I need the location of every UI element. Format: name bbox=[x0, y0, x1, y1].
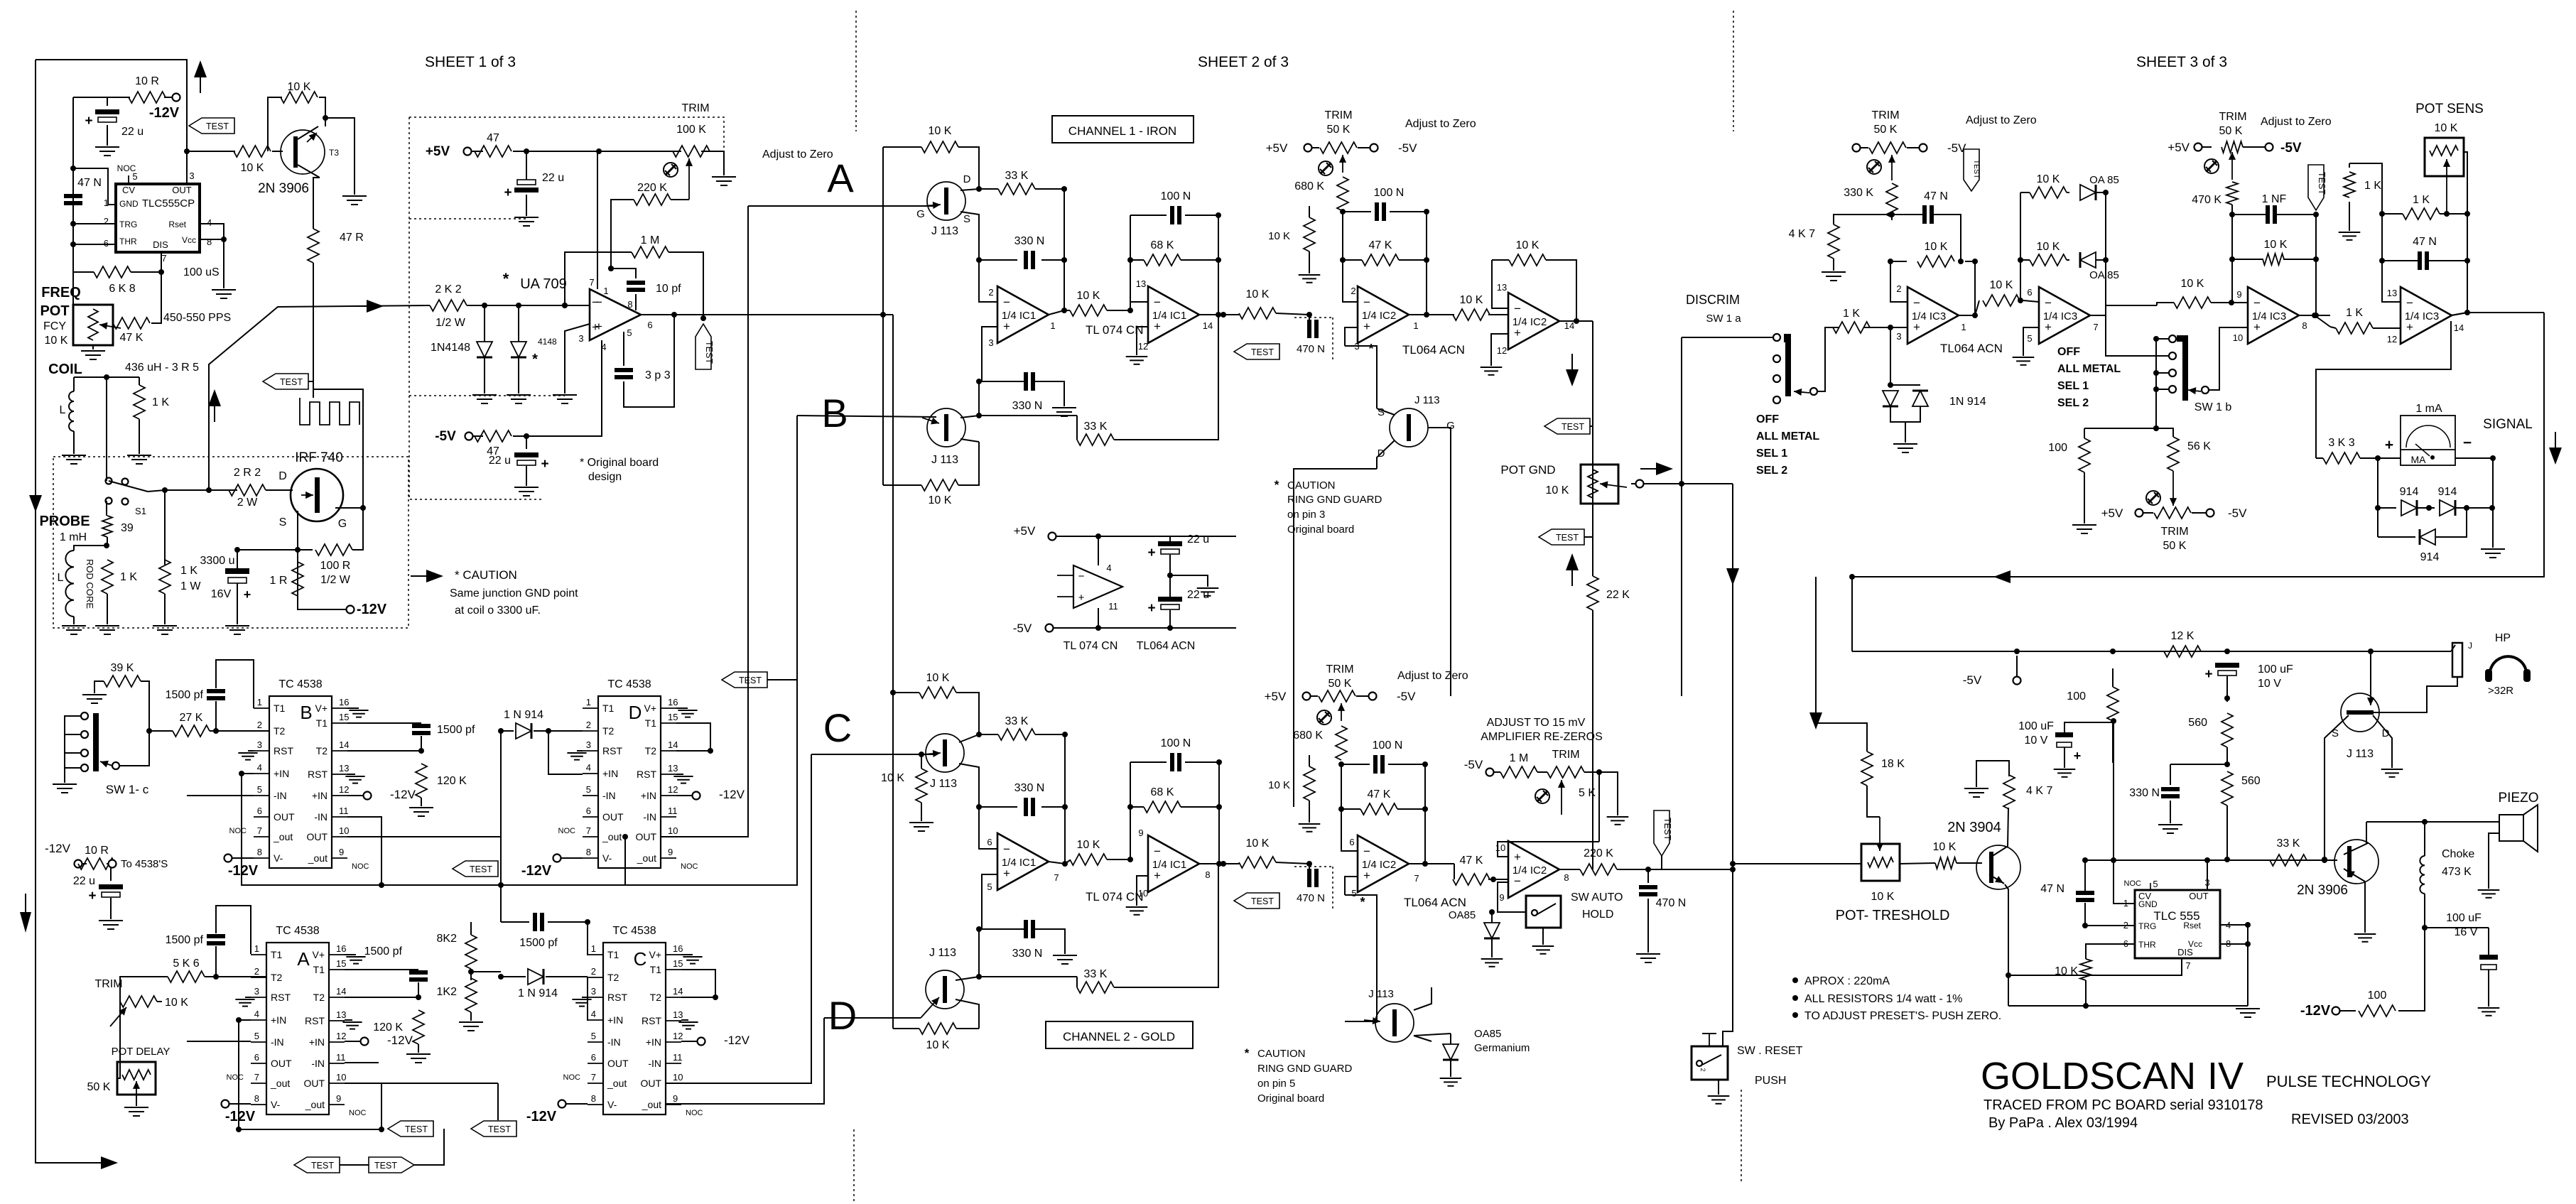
svg-text:Vcc: Vcc bbox=[2188, 939, 2202, 949]
wire bbox=[501, 921, 529, 923]
svg-text:-5V: -5V bbox=[1397, 690, 1416, 703]
wire bbox=[313, 263, 314, 398]
terminal -12V bbox=[224, 855, 232, 862]
svg-text:-IN: -IN bbox=[314, 811, 328, 823]
wire bbox=[110, 868, 112, 881]
wire bbox=[1542, 928, 1544, 945]
wire bbox=[1309, 315, 1310, 324]
svg-text:1500 pf: 1500 pf bbox=[166, 934, 204, 946]
wire bbox=[112, 322, 114, 324]
switch SW 1- c bbox=[81, 712, 88, 720]
wire bbox=[200, 239, 224, 240]
svg-text:SW AUTO: SW AUTO bbox=[1571, 891, 1623, 904]
wire bbox=[882, 147, 884, 315]
capacitor 22 u bbox=[95, 109, 119, 114]
wire bbox=[534, 730, 583, 732]
wire bbox=[2220, 943, 2248, 945]
wire bbox=[557, 857, 583, 859]
svg-text:SEL 2: SEL 2 bbox=[1756, 465, 1787, 477]
resistor 10 K bbox=[2174, 297, 2211, 308]
flow arrow bbox=[1809, 712, 1822, 730]
wire bbox=[1169, 610, 1171, 628]
svg-text:*: * bbox=[1360, 895, 1365, 909]
capacitor 100 N bbox=[1170, 206, 1174, 224]
wire bbox=[2424, 822, 2425, 856]
svg-text:−: − bbox=[2045, 296, 2052, 310]
svg-text:2: 2 bbox=[1896, 283, 1901, 294]
capacitor 330 N bbox=[1024, 798, 1028, 816]
svg-text:+IN: +IN bbox=[607, 1014, 623, 1026]
svg-text:T2: T2 bbox=[274, 725, 286, 737]
svg-text:7: 7 bbox=[2185, 960, 2190, 971]
wire bbox=[2106, 305, 2157, 315]
svg-text:1 K: 1 K bbox=[120, 571, 137, 583]
svg-text:J 113: J 113 bbox=[1414, 394, 1440, 406]
wire bbox=[470, 1012, 472, 1021]
wire bbox=[883, 314, 893, 315]
svg-text:22 u: 22 u bbox=[121, 126, 144, 138]
wire bbox=[2425, 821, 2499, 823]
svg-text:TRIM: TRIM bbox=[1871, 109, 1899, 121]
svg-text:CAUTION: CAUTION bbox=[1287, 479, 1336, 492]
svg-text:22 u: 22 u bbox=[542, 172, 564, 184]
wire bbox=[587, 977, 588, 1021]
svg-text:8: 8 bbox=[2302, 320, 2307, 331]
wire bbox=[1424, 809, 1426, 864]
svg-text:1/4 IC3: 1/4 IC3 bbox=[2405, 310, 2439, 322]
wire bbox=[82, 863, 87, 864]
svg-text:2N 3904: 2N 3904 bbox=[1947, 820, 2001, 835]
capacitor bbox=[2161, 787, 2180, 791]
ground bbox=[909, 822, 933, 823]
svg-text:1: 1 bbox=[603, 286, 608, 296]
svg-text:33 K: 33 K bbox=[1084, 968, 1108, 980]
ground bbox=[1532, 945, 1554, 947]
svg-text:A: A bbox=[827, 156, 854, 200]
svg-text:-12V: -12V bbox=[521, 863, 552, 879]
trimmer screw symbol bbox=[1535, 789, 1549, 803]
svg-text:22 u: 22 u bbox=[73, 875, 95, 887]
wire bbox=[1974, 261, 1976, 315]
svg-text:+5V: +5V bbox=[2168, 141, 2190, 154]
svg-text:10: 10 bbox=[336, 1072, 346, 1083]
wire bbox=[1681, 337, 1682, 484]
svg-text:NOC: NOC bbox=[2124, 879, 2142, 888]
wire bbox=[200, 224, 224, 239]
svg-text:1/4 IC1: 1/4 IC1 bbox=[1002, 310, 1036, 322]
resistor 220 K bbox=[634, 194, 671, 205]
svg-text:Vcc: Vcc bbox=[182, 235, 196, 245]
wire bbox=[2231, 205, 2233, 215]
terminal -5V bbox=[1046, 624, 1054, 632]
svg-text:SW 1 b: SW 1 b bbox=[2195, 401, 2232, 413]
notes bbox=[1792, 977, 1798, 983]
wire bbox=[1631, 483, 1635, 484]
svg-text:14: 14 bbox=[339, 739, 349, 750]
wire bbox=[1450, 1060, 1451, 1077]
wire bbox=[1309, 864, 1310, 873]
wire bbox=[1867, 786, 1880, 817]
svg-text:1 K: 1 K bbox=[2413, 194, 2430, 206]
wire bbox=[106, 501, 107, 516]
wire bbox=[237, 549, 298, 551]
svg-text:−: − bbox=[592, 295, 599, 309]
resistor 47 bbox=[475, 146, 512, 157]
wire bbox=[1035, 734, 1065, 735]
svg-text:on pin 5: on pin 5 bbox=[1257, 1078, 1295, 1090]
resistor 33 K bbox=[1077, 434, 1114, 445]
svg-text:TLC555CP: TLC555CP bbox=[142, 197, 195, 210]
svg-text:at coil o 3300 uF.: at coil o 3300 uF. bbox=[455, 604, 541, 617]
diode bbox=[528, 969, 543, 985]
resistor 47 K bbox=[1453, 874, 1490, 885]
wire bbox=[1114, 315, 1218, 440]
svg-text:OFF: OFF bbox=[2057, 346, 2080, 358]
wire bbox=[161, 252, 162, 272]
svg-text:T1: T1 bbox=[313, 964, 325, 975]
ground bbox=[1481, 958, 1503, 960]
wire bbox=[2455, 457, 2493, 459]
wire bbox=[347, 795, 367, 796]
svg-text:OUT: OUT bbox=[303, 1078, 325, 1089]
svg-text:TC 4538: TC 4538 bbox=[278, 678, 322, 690]
wire bbox=[2231, 302, 2248, 303]
svg-text:10: 10 bbox=[339, 825, 349, 836]
wire bbox=[2378, 507, 2396, 509]
wire bbox=[2143, 512, 2153, 514]
svg-text:TEST: TEST bbox=[1251, 347, 1274, 357]
svg-text:14: 14 bbox=[668, 739, 678, 750]
wire bbox=[1907, 147, 1919, 148]
wire bbox=[1409, 863, 1454, 864]
svg-text:5: 5 bbox=[987, 882, 992, 892]
svg-text:-12V: -12V bbox=[719, 788, 745, 801]
ground bbox=[2072, 524, 2096, 526]
IC TC 4538 B bbox=[269, 696, 332, 868]
terminal -5V bbox=[1370, 144, 1378, 152]
svg-text:TEST: TEST bbox=[311, 1161, 334, 1171]
wire bbox=[1064, 310, 1070, 311]
wire bbox=[526, 151, 527, 180]
terminal +5V bbox=[2195, 143, 2202, 151]
svg-text:TRIM: TRIM bbox=[1326, 663, 1353, 676]
svg-text:-IN: -IN bbox=[602, 790, 616, 801]
svg-text:2: 2 bbox=[257, 720, 262, 730]
svg-text:CV: CV bbox=[122, 185, 135, 195]
svg-text:TRIM: TRIM bbox=[1324, 109, 1352, 121]
svg-text:7: 7 bbox=[2093, 322, 2098, 332]
svg-text:7: 7 bbox=[254, 1072, 259, 1083]
svg-text:470 N: 470 N bbox=[1656, 897, 1687, 909]
wire bbox=[2398, 1010, 2425, 1012]
diode bbox=[477, 342, 492, 357]
wire bbox=[2330, 327, 2336, 328]
svg-text:J 113: J 113 bbox=[929, 947, 956, 959]
svg-text:SHEET 3 of 3: SHEET 3 of 3 bbox=[2136, 54, 2227, 70]
svg-text:8: 8 bbox=[257, 847, 262, 857]
wire bbox=[921, 803, 922, 821]
svg-text:APROX : 220mA: APROX : 220mA bbox=[1804, 975, 1890, 987]
ground bbox=[1607, 816, 1629, 818]
svg-text:330 N: 330 N bbox=[1012, 948, 1043, 960]
svg-text:+: + bbox=[244, 587, 251, 602]
svg-text:9: 9 bbox=[339, 847, 344, 857]
svg-text:10 K: 10 K bbox=[1990, 279, 2013, 291]
svg-text:PROBE: PROBE bbox=[39, 514, 90, 529]
resistor bbox=[113, 318, 150, 329]
trimmer screw symbol bbox=[1867, 160, 1881, 174]
resistor bbox=[2221, 141, 2243, 153]
svg-text:3: 3 bbox=[254, 986, 259, 997]
svg-text:+IN: +IN bbox=[641, 790, 656, 801]
svg-text:−: − bbox=[1514, 302, 1521, 315]
flow arrow bbox=[101, 1156, 118, 1169]
wire bbox=[501, 976, 526, 977]
wire bbox=[1309, 206, 1310, 217]
ground bbox=[212, 289, 236, 291]
wire bbox=[2283, 259, 2316, 260]
svg-text:-12V: -12V bbox=[45, 842, 71, 855]
wire bbox=[2467, 214, 2468, 313]
svg-text:5 K 6: 5 K 6 bbox=[173, 958, 199, 970]
svg-text:T2: T2 bbox=[607, 972, 619, 983]
terminal +5V bbox=[1303, 693, 1311, 700]
svg-text:−: − bbox=[1078, 570, 1085, 582]
svg-text:15: 15 bbox=[668, 712, 678, 722]
wire bbox=[2382, 261, 2401, 302]
inductor bbox=[69, 391, 74, 431]
wire bbox=[1934, 215, 1961, 261]
terminal -5V bbox=[1369, 693, 1377, 700]
svg-text:ALL RESISTORS 1/4 watt - 1%: ALL RESISTORS 1/4 watt - 1% bbox=[1804, 993, 1962, 1005]
transistor JFET bbox=[2341, 693, 2379, 732]
svg-text:12: 12 bbox=[1138, 341, 1148, 352]
svg-text:7: 7 bbox=[586, 825, 591, 836]
svg-text:1 N 914: 1 N 914 bbox=[504, 709, 543, 721]
resistor 33 K bbox=[1077, 982, 1114, 993]
svg-text:1500 pf: 1500 pf bbox=[437, 724, 475, 736]
wire bbox=[2231, 215, 2233, 259]
PROBE enclosure bbox=[53, 457, 408, 628]
svg-text:THR: THR bbox=[2138, 940, 2156, 950]
svg-text:TEST: TEST bbox=[1562, 422, 1584, 432]
svg-text:7: 7 bbox=[1054, 872, 1059, 883]
wire bbox=[1294, 469, 1377, 807]
wire bbox=[1428, 428, 1451, 696]
wire bbox=[1130, 762, 1131, 859]
wire bbox=[1130, 259, 1144, 261]
svg-text:POT: POT bbox=[40, 303, 69, 319]
wire bbox=[298, 549, 313, 551]
op-amp 1/4 IC1 bbox=[997, 286, 1049, 343]
wire bbox=[1414, 1034, 1451, 1036]
terminal -5V bbox=[2266, 143, 2273, 151]
transistor JFET bbox=[926, 970, 964, 1009]
svg-text:TEST: TEST bbox=[1251, 896, 1274, 906]
wire bbox=[2247, 925, 2248, 1006]
wire bbox=[2084, 472, 2085, 524]
wire bbox=[345, 1041, 364, 1042]
wire bbox=[347, 817, 381, 885]
svg-text:14: 14 bbox=[336, 986, 346, 997]
trimmer screw symbol bbox=[664, 163, 678, 177]
transistor 2N 3904 bbox=[1976, 845, 2020, 889]
wire bbox=[186, 120, 188, 132]
svg-text:_out: _out bbox=[270, 1078, 290, 1089]
svg-text:2: 2 bbox=[254, 966, 259, 977]
svg-text:10 K: 10 K bbox=[929, 125, 952, 137]
resistor bbox=[2226, 182, 2238, 205]
wire bbox=[2192, 512, 2206, 514]
wire bbox=[982, 874, 997, 929]
op-amp 1/4 IC1 bbox=[997, 833, 1049, 890]
wire bbox=[767, 679, 797, 680]
terminal -12V bbox=[75, 860, 82, 868]
wire bbox=[110, 898, 112, 919]
resistor 100 bbox=[2359, 1005, 2396, 1016]
svg-text:-12V: -12V bbox=[2300, 1003, 2331, 1019]
capacitor 22 u bbox=[1158, 541, 1182, 546]
resistor bbox=[1304, 766, 1315, 801]
svg-text:J: J bbox=[2468, 641, 2472, 651]
wire bbox=[979, 806, 1017, 808]
wire bbox=[2382, 260, 2418, 261]
svg-text:8: 8 bbox=[591, 1093, 596, 1104]
svg-text:4: 4 bbox=[207, 217, 212, 228]
svg-text:4 K 7: 4 K 7 bbox=[1789, 228, 1815, 240]
diode 1 N 914 bbox=[516, 723, 531, 739]
wire bbox=[107, 594, 108, 624]
wire bbox=[319, 97, 325, 118]
wire bbox=[526, 466, 527, 486]
ground bbox=[153, 625, 177, 627]
resistor 10 K bbox=[1453, 309, 1490, 320]
svg-text:GND: GND bbox=[119, 199, 139, 209]
svg-text:10 K: 10 K bbox=[1246, 837, 1270, 850]
capacitor 100 N bbox=[1170, 753, 1174, 771]
svg-text:RST: RST bbox=[607, 992, 627, 1003]
capacitor 3300 u bbox=[225, 568, 249, 574]
capacitor bbox=[1375, 202, 1379, 221]
svg-text:NOC: NOC bbox=[681, 862, 698, 871]
wire bbox=[1107, 310, 1130, 311]
svg-text:ROD CORE: ROD CORE bbox=[85, 559, 95, 609]
wire bbox=[352, 508, 363, 550]
svg-text:1/4 IC1: 1/4 IC1 bbox=[1152, 310, 1186, 322]
svg-text:+5V: +5V bbox=[1266, 141, 1288, 155]
wire bbox=[2170, 764, 2227, 765]
svg-text:7: 7 bbox=[1414, 873, 1419, 884]
svg-text:SHEET 2 of 3: SHEET 2 of 3 bbox=[1198, 54, 1289, 70]
wire bbox=[149, 730, 173, 732]
wire bbox=[2226, 676, 2228, 702]
wire bbox=[2023, 340, 2024, 356]
flow arrow bbox=[1566, 369, 1579, 386]
svg-text:680 K: 680 K bbox=[1293, 730, 1323, 742]
resistor bbox=[120, 996, 157, 1007]
svg-text:10 K: 10 K bbox=[1546, 484, 1569, 497]
svg-text:13: 13 bbox=[1497, 282, 1507, 293]
svg-text:SW 1 a: SW 1 a bbox=[1706, 313, 1741, 325]
terminal -12V bbox=[693, 792, 700, 800]
wire bbox=[2425, 927, 2489, 928]
wire bbox=[1309, 251, 1310, 273]
svg-text:8: 8 bbox=[1564, 872, 1569, 883]
terminal -12V bbox=[361, 1038, 369, 1046]
wire bbox=[266, 489, 293, 491]
IC TC 4538 C bbox=[603, 943, 666, 1114]
svg-text:4148: 4148 bbox=[538, 337, 557, 347]
svg-text:−: − bbox=[2463, 435, 2472, 451]
wire bbox=[2207, 860, 2208, 890]
terminal -12V bbox=[364, 792, 372, 800]
wire bbox=[978, 381, 980, 416]
svg-text:2: 2 bbox=[586, 720, 591, 730]
svg-text:5: 5 bbox=[586, 784, 591, 795]
wire bbox=[2156, 338, 2168, 340]
svg-text:5: 5 bbox=[1351, 888, 1356, 899]
wire bbox=[892, 315, 894, 1029]
resistor 10 K bbox=[234, 146, 271, 157]
svg-text:+IN: +IN bbox=[274, 768, 289, 779]
svg-text:11: 11 bbox=[336, 1052, 346, 1063]
wire bbox=[1035, 188, 1064, 190]
svg-text:13: 13 bbox=[673, 1009, 683, 1020]
wire bbox=[1733, 863, 1861, 864]
resistor bbox=[159, 560, 171, 594]
wire bbox=[2256, 859, 2337, 861]
wire bbox=[2112, 721, 2114, 763]
wire bbox=[2349, 202, 2350, 231]
ground bbox=[514, 487, 539, 488]
flow arrow bbox=[208, 389, 221, 406]
resistor 10 K bbox=[1070, 305, 1107, 316]
svg-text:G: G bbox=[916, 208, 925, 220]
diode 914 bbox=[2440, 500, 2455, 516]
svg-text:436 uH - 3 R 5: 436 uH - 3 R 5 bbox=[125, 362, 199, 374]
wire bbox=[597, 151, 598, 289]
svg-text:PULSE TECHNOLOGY: PULSE TECHNOLOGY bbox=[2266, 1073, 2431, 1090]
wire bbox=[2543, 313, 2545, 458]
transistor 2N 3906 bbox=[2334, 840, 2379, 884]
wire bbox=[73, 97, 130, 98]
svg-text:12: 12 bbox=[2387, 334, 2397, 345]
diode bbox=[1912, 391, 1928, 406]
svg-text:16: 16 bbox=[668, 697, 678, 707]
ground bbox=[1822, 271, 1846, 273]
svg-text:B: B bbox=[300, 702, 312, 723]
wire bbox=[2451, 645, 2455, 651]
wire bbox=[1223, 314, 1239, 315]
wire bbox=[2315, 215, 2317, 315]
svg-text:-5V: -5V bbox=[1464, 758, 1483, 771]
wire bbox=[2155, 339, 2157, 428]
wire bbox=[548, 922, 588, 955]
wire bbox=[2436, 508, 2467, 537]
wire bbox=[577, 750, 583, 752]
resistor 220 K bbox=[1580, 864, 1617, 875]
svg-text:330 N: 330 N bbox=[1012, 400, 1043, 412]
svg-text:15: 15 bbox=[339, 712, 349, 722]
svg-text:10: 10 bbox=[668, 825, 678, 836]
ground bbox=[82, 694, 107, 695]
ground bbox=[225, 625, 249, 627]
svg-text:12: 12 bbox=[1497, 345, 1507, 356]
TEST point flag bbox=[369, 1157, 414, 1173]
capacitor 1500 pf bbox=[533, 913, 537, 931]
wire bbox=[2451, 313, 2467, 315]
wire bbox=[1358, 147, 1370, 148]
